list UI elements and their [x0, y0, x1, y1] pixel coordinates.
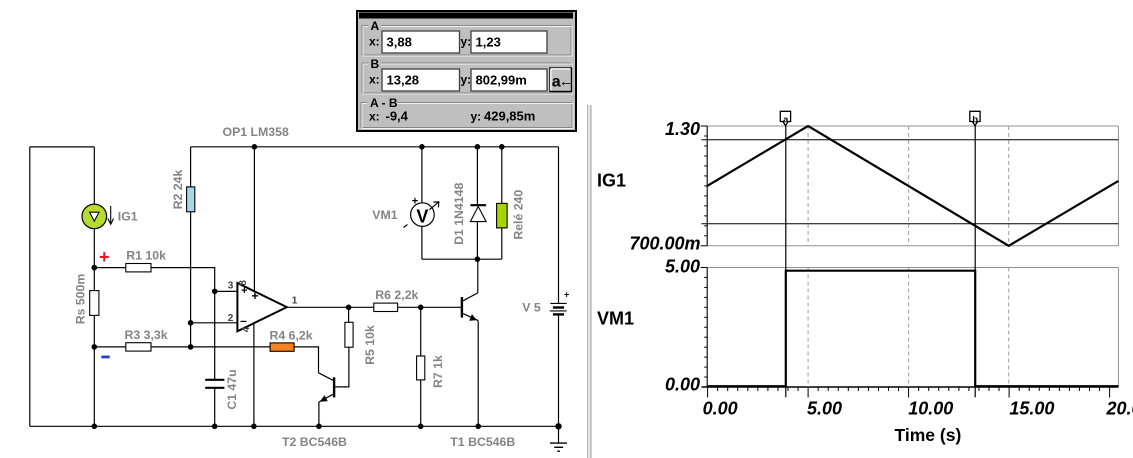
battery V 5	[550, 303, 567, 314]
wire C1 to rail	[214, 388, 216, 426]
resistor R6	[374, 303, 398, 311]
wire R7 bottom	[420, 380, 422, 426]
svg-text:VM1: VM1	[372, 208, 397, 222]
wire ground stub	[558, 426, 560, 443]
svg-text:5.00: 5.00	[665, 257, 700, 277]
wire VM1-D1-relay bottom	[422, 258, 502, 260]
cursor b line	[974, 126, 976, 398]
plot labels	[597, 119, 1133, 445]
resistor R1	[126, 264, 151, 272]
svg-text:+: +	[251, 289, 258, 303]
svg-text:8: 8	[238, 280, 249, 286]
diode D1	[470, 205, 486, 221]
group box A	[362, 26, 571, 56]
svg-text:1: 1	[292, 296, 298, 307]
y ticks VM1	[701, 268, 708, 378]
svg-text:20.00: 20.00	[1106, 399, 1133, 419]
resistor R7	[417, 356, 425, 380]
field A y	[471, 31, 547, 53]
resistor Rs	[90, 291, 99, 316]
wire left rail	[29, 147, 31, 426]
wire R1 left	[94, 267, 126, 269]
svg-text:IG1: IG1	[118, 210, 138, 224]
svg-text:b: b	[972, 114, 978, 125]
svg-text:10.00: 10.00	[908, 399, 953, 419]
svg-text:0.00: 0.00	[665, 375, 700, 395]
svg-text:3,88: 3,88	[387, 34, 412, 49]
svg-text:13,28: 13,28	[387, 72, 420, 87]
wire R3 left	[94, 346, 126, 348]
x-axis	[702, 386, 1119, 388]
IG1 waveform	[707, 126, 1118, 246]
svg-text:a: a	[783, 114, 789, 125]
svg-text:R4 6,2k: R4 6,2k	[270, 328, 313, 342]
resistor R2	[187, 187, 195, 212]
svg-text:Relé 240: Relé 240	[511, 190, 525, 240]
wire IG1 to + node	[93, 229, 95, 268]
wire D1 bottom	[476, 222, 478, 260]
VM1 y-axis	[706, 268, 708, 388]
svg-text:IG1: IG1	[597, 171, 626, 191]
dashed gridlines	[808, 126, 1009, 387]
transistor T1	[462, 293, 478, 321]
wire node3 to C1	[214, 291, 216, 379]
resistor R5	[345, 322, 353, 347]
cursor flag b	[970, 111, 980, 125]
svg-text:429,85m: 429,85m	[484, 108, 535, 123]
wire IG1 top stub	[93, 147, 95, 204]
svg-text:1,23: 1,23	[476, 34, 501, 49]
svg-text:x:: x:	[369, 109, 380, 123]
panel divider	[587, 105, 589, 458]
svg-text:x:: x:	[369, 35, 380, 49]
wire op-amp pin8 supply	[253, 147, 255, 291]
svg-text:D1 1N4148: D1 1N4148	[452, 183, 466, 245]
svg-text:–: –	[240, 314, 247, 328]
group box B	[362, 63, 571, 93]
svg-text:←: ←	[559, 73, 574, 90]
IG1 y-axis	[706, 126, 708, 246]
svg-text:VM1: VM1	[597, 309, 634, 329]
wire R7 top	[420, 307, 422, 356]
svg-text:R2 24k: R2 24k	[171, 170, 185, 210]
wire Rs to bottom rail	[93, 315, 95, 426]
svg-text:+: +	[412, 196, 418, 208]
svg-text:Time (s): Time (s)	[895, 425, 962, 445]
wire VM1 bottom	[421, 226, 423, 259]
resistor R3	[126, 343, 151, 351]
svg-text:2: 2	[228, 313, 234, 324]
svg-text:R6 2,2k: R6 2,2k	[375, 288, 418, 302]
wire battery top	[558, 147, 560, 304]
svg-text:R3 3,3k: R3 3,3k	[125, 328, 168, 342]
wire T1 emitter	[477, 321, 479, 427]
svg-text:4: 4	[241, 326, 252, 332]
wire R1 right to corner	[151, 268, 215, 292]
svg-text:V 5: V 5	[522, 301, 541, 315]
svg-text:B: B	[371, 57, 380, 71]
wire R6 left	[349, 306, 374, 308]
svg-text:700.00m: 700.00m	[629, 234, 700, 254]
wire top rail	[191, 146, 559, 148]
schematic labels	[74, 125, 541, 449]
VM1 waveform	[707, 271, 1118, 387]
svg-text:y:: y:	[461, 35, 472, 49]
wire D1 top	[476, 147, 478, 204]
relay Relé 240	[497, 203, 508, 228]
svg-text:+: +	[99, 247, 110, 267]
svg-text:1.30: 1.30	[665, 119, 700, 139]
svg-text:+: +	[564, 290, 569, 300]
dialog title bar	[359, 13, 573, 19]
svg-text:x:: x:	[369, 73, 380, 87]
capacitor C1	[205, 380, 224, 388]
svg-text:V: V	[416, 207, 428, 227]
wire R3 to R4	[151, 346, 270, 348]
wire VM1 top	[421, 147, 423, 203]
svg-text:T1 BC546B: T1 BC546B	[450, 435, 515, 449]
wire op-amp pin4	[253, 323, 255, 426]
svg-text:A: A	[371, 19, 380, 33]
x ticks	[708, 387, 1110, 398]
cursor a line	[785, 126, 787, 398]
svg-text:R1 10k: R1 10k	[126, 249, 166, 263]
wire op-amp output	[287, 306, 349, 308]
svg-text:R5 10k: R5 10k	[363, 325, 377, 365]
wire T1 collector	[477, 259, 479, 293]
wire R5 top	[348, 307, 350, 322]
wire relay bottom	[501, 228, 503, 259]
current source IG1	[82, 204, 114, 229]
svg-text:0.00: 0.00	[703, 399, 738, 419]
field A x	[382, 31, 460, 53]
cursor flag a	[780, 111, 790, 125]
field B x	[382, 69, 460, 91]
node - (blue)	[101, 356, 109, 359]
wire R6 right	[398, 306, 421, 308]
wire relay top	[501, 147, 503, 204]
svg-text:T2 BC546B: T2 BC546B	[282, 435, 347, 449]
ground	[550, 443, 567, 451]
svg-text:y:: y:	[461, 73, 472, 87]
wire pin2	[191, 322, 238, 324]
wire bottom rail	[30, 425, 559, 427]
resistor R4	[270, 343, 294, 351]
svg-text:5.00: 5.00	[807, 399, 842, 419]
wire R2 bottom	[190, 212, 192, 347]
voltmeter VM1	[404, 196, 439, 228]
svg-text:-9,4: -9,4	[386, 108, 409, 123]
wire pin3	[215, 290, 238, 292]
y ticks IG1	[701, 126, 708, 246]
wire R2 top	[190, 147, 192, 187]
wire T2 emitter	[318, 402, 320, 426]
wire R4 right	[294, 347, 318, 373]
svg-text:C1 47u: C1 47u	[225, 369, 239, 409]
button a-left	[550, 68, 572, 92]
wire +node to Rs	[93, 268, 95, 291]
svg-text:Rs 500m: Rs 500m	[74, 274, 88, 325]
transistor T2	[319, 373, 335, 402]
svg-text:R7 1k: R7 1k	[431, 355, 445, 388]
field B y	[471, 69, 547, 91]
wire T1 base	[421, 306, 462, 308]
group box A-B	[361, 103, 572, 128]
op-amp OP1	[237, 283, 286, 331]
svg-text:y:: y:	[471, 109, 482, 123]
IG1 plot frame	[707, 126, 1118, 387]
wire battery bottom	[558, 315, 560, 426]
horizontal cursor value lines	[702, 139, 1119, 141]
wire top-left	[30, 146, 95, 148]
svg-text:802,99m: 802,99m	[476, 72, 527, 87]
dialog frame	[357, 11, 576, 131]
svg-text:OP1 LM358: OP1 LM358	[223, 125, 289, 139]
svg-text:3: 3	[228, 280, 234, 291]
wire R5 bottom to T2 base	[335, 347, 349, 387]
svg-text:15.00: 15.00	[1009, 399, 1054, 419]
svg-text:+: +	[241, 285, 247, 297]
